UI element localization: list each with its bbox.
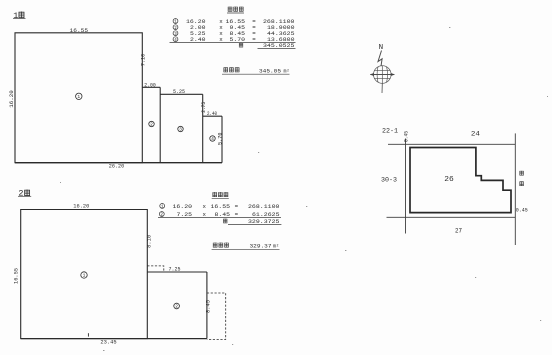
- svg-text:0.45: 0.45: [516, 208, 528, 214]
- floor area line 床面積 329.37 m2: [213, 243, 279, 250]
- svg-text:x: x: [203, 211, 207, 218]
- svg-text:16.20: 16.20: [8, 90, 15, 108]
- svg-text:2: 2: [150, 122, 153, 128]
- svg-text:16.20: 16.20: [73, 203, 90, 210]
- svg-text:x: x: [203, 203, 207, 210]
- tail line below: [381, 83, 383, 93]
- 2F plan: [21, 210, 226, 340]
- svg-text:4: 4: [211, 136, 214, 142]
- 1F plan: [15, 33, 222, 163]
- svg-text:1: 1: [83, 273, 86, 279]
- svg-text:268.1100: 268.1100: [248, 203, 280, 210]
- svg-text:3: 3: [179, 127, 182, 133]
- svg-text:2: 2: [18, 189, 23, 199]
- svg-text:m²: m²: [283, 68, 289, 74]
- svg-text:8.45: 8.45: [205, 300, 212, 313]
- svg-text:7.10: 7.10: [139, 53, 146, 66]
- waterway label 水: [519, 171, 523, 176]
- svg-text:23.45: 23.45: [100, 339, 116, 346]
- svg-text:8.10: 8.10: [145, 234, 152, 248]
- svg-text:329.3725: 329.3725: [248, 218, 280, 225]
- bottom edge full width: [15, 162, 222, 164]
- node 2: [174, 303, 180, 309]
- svg-text:2.40: 2.40: [207, 110, 217, 117]
- room 1 outline (big square): [21, 210, 148, 339]
- bottom edge full width: [21, 338, 207, 340]
- row 4: [173, 36, 295, 43]
- sum row 計 345.0525: [239, 42, 295, 49]
- rule under rows: [158, 217, 281, 219]
- svg-text:m²: m²: [273, 244, 279, 250]
- building 26 outline: [410, 148, 511, 213]
- svg-text:=: =: [235, 211, 239, 218]
- svg-text:0.45: 0.45: [404, 131, 410, 142]
- svg-text:27: 27: [455, 228, 462, 235]
- site plan: [381, 128, 528, 246]
- svg-text:8.45: 8.45: [215, 211, 231, 218]
- svg-text:16.55: 16.55: [211, 203, 231, 210]
- circled room numbers 1F: [76, 93, 216, 141]
- node 1: [81, 272, 87, 278]
- row 1: [160, 203, 280, 210]
- room 4 top edge: [203, 115, 222, 117]
- svg-text:2: 2: [175, 304, 178, 310]
- room 2 strip top edge: [142, 86, 160, 88]
- svg-text:26: 26: [444, 176, 454, 184]
- globe vertical meridians: [377, 66, 387, 84]
- globe horizontal chords: [374, 71, 390, 79]
- dashed 1F room4 outline: [207, 293, 226, 340]
- dashed 1F strip outline: [147, 266, 164, 272]
- 2F label "2階": [18, 189, 31, 199]
- room 3 top edge: [160, 93, 203, 95]
- room 2 top edge: [147, 271, 207, 273]
- lot boundary top line: [388, 143, 515, 145]
- row 3: [173, 30, 295, 37]
- svg-text:22-1: 22-1: [382, 128, 398, 135]
- svg-text:5.70: 5.70: [216, 132, 223, 145]
- svg-text:16.55: 16.55: [13, 268, 20, 284]
- svg-text:=: =: [235, 203, 239, 210]
- svg-text:26.20: 26.20: [109, 162, 125, 169]
- svg-text:1: 1: [13, 11, 18, 21]
- node 1: [76, 93, 82, 99]
- waterway label 路: [519, 181, 523, 186]
- tick on bottom edge: [87, 333, 89, 336]
- rule under rows: [170, 41, 296, 43]
- svg-text:329.37: 329.37: [250, 243, 273, 250]
- svg-text:61.2625: 61.2625: [252, 211, 280, 218]
- svg-text:30-3: 30-3: [381, 177, 397, 184]
- node 4: [210, 136, 215, 141]
- row 2: [159, 211, 280, 218]
- compass north arrow: [370, 44, 394, 93]
- svg-text:16.55: 16.55: [70, 27, 89, 34]
- node 2: [149, 121, 154, 126]
- 1F table: [170, 7, 296, 75]
- svg-text:345.05: 345.05: [259, 67, 282, 74]
- label 1F "1階": [13, 11, 26, 21]
- circled room numbers 2F: [81, 272, 180, 309]
- 2F table: [158, 192, 281, 250]
- compass circle: [374, 66, 392, 84]
- floor area line 床面積 345.05 m2: [224, 67, 290, 74]
- room 1 outline (big square): [15, 33, 142, 163]
- svg-text:345.0525: 345.0525: [263, 42, 295, 49]
- svg-text:5.25: 5.25: [173, 88, 185, 95]
- lot boundary bottom line: [387, 216, 516, 218]
- svg-text:1: 1: [77, 94, 80, 100]
- lot boundary right line: [514, 133, 516, 245]
- room 4 right edge: [221, 116, 223, 163]
- header 求積表: [213, 192, 218, 197]
- arrow zigzag: [378, 51, 382, 67]
- svg-text:2.00: 2.00: [144, 81, 156, 88]
- lot boundary left line: [405, 139, 407, 234]
- room 2/3 divider: [159, 87, 161, 162]
- node 3: [178, 126, 183, 131]
- svg-text:16.20: 16.20: [173, 203, 193, 210]
- room 3/4 divider: [202, 94, 204, 162]
- header 求積表: [228, 7, 233, 12]
- row 1: [173, 18, 295, 25]
- row 2: [173, 24, 295, 31]
- svg-text:7.25: 7.25: [169, 266, 181, 273]
- room 2 right edge: [206, 272, 208, 339]
- svg-text:7.25: 7.25: [177, 211, 193, 218]
- sum row 計 329.3725: [223, 218, 280, 225]
- east west points: [370, 74, 394, 76]
- svg-text:24: 24: [471, 131, 480, 138]
